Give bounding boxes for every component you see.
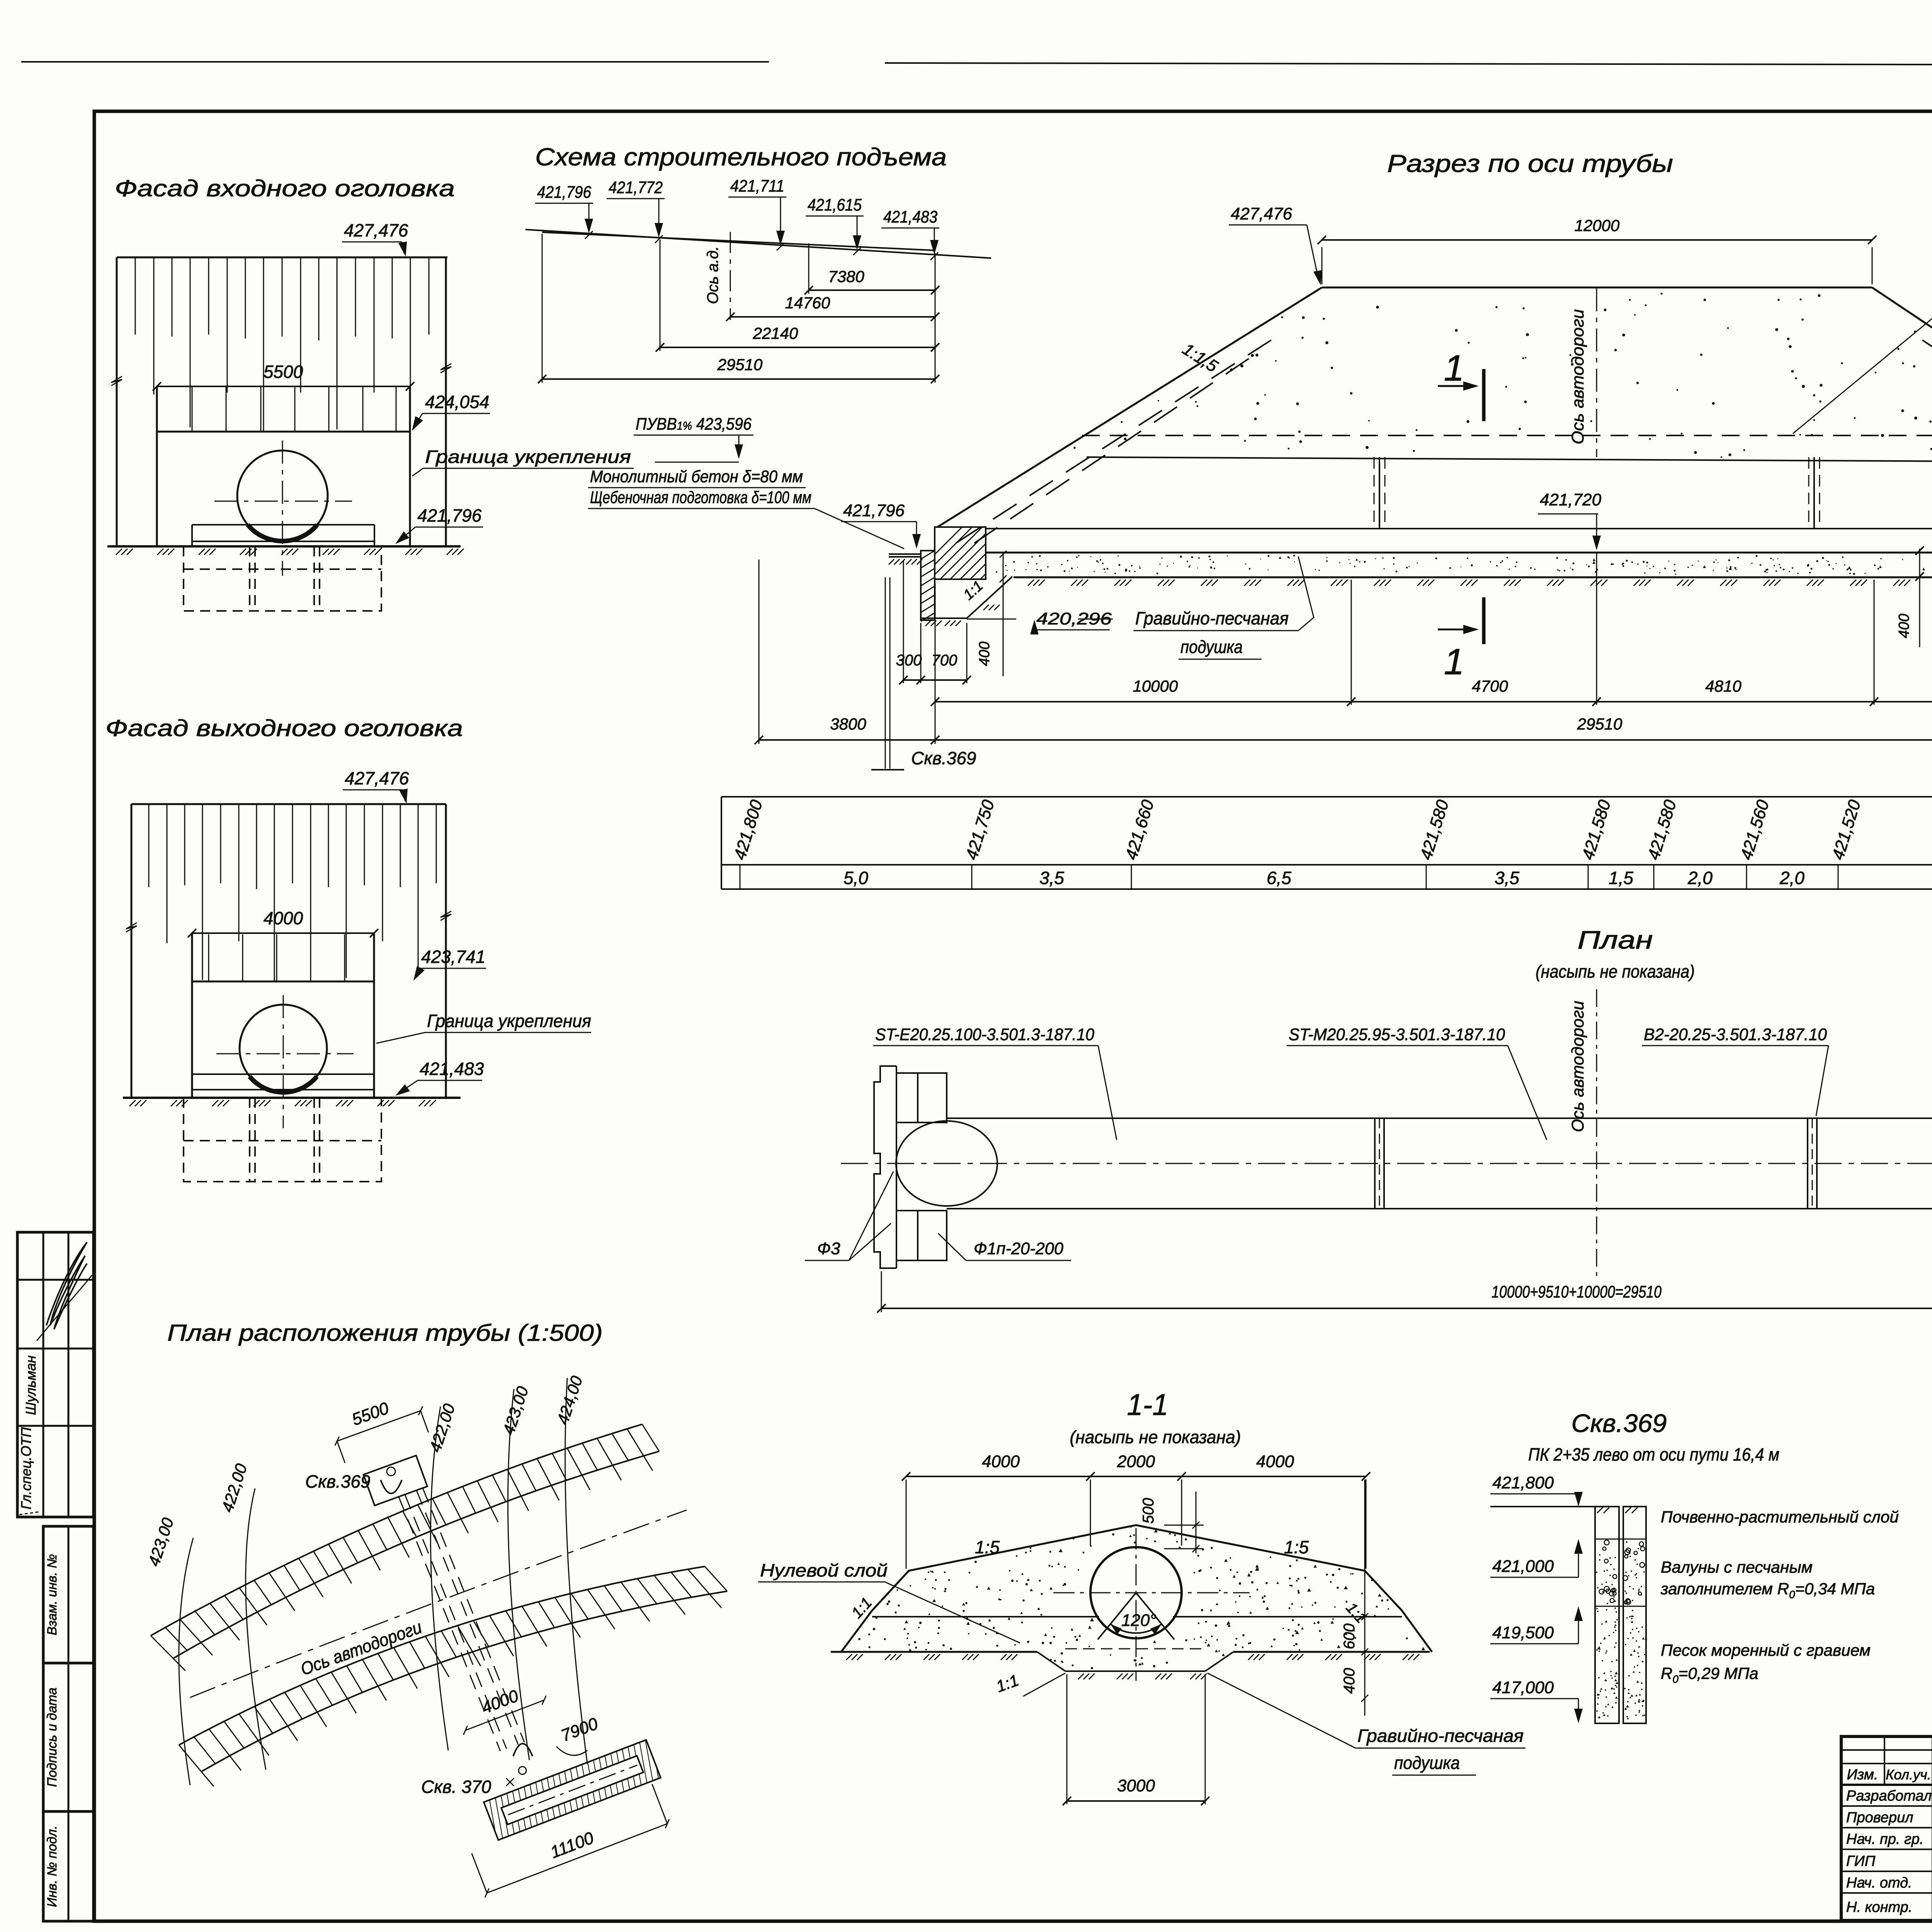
svg-text:Валуны с песчаным: Валуны с песчаным xyxy=(1661,1558,1813,1576)
svg-text:Разрез по оси трубы: Разрез по оси трубы xyxy=(1387,150,1673,177)
svg-text:1: 1 xyxy=(1444,348,1464,389)
svg-text:12000: 12000 xyxy=(1575,216,1620,235)
svg-text:421,711: 421,711 xyxy=(730,177,784,196)
svg-text:2,0: 2,0 xyxy=(1779,868,1804,888)
site plan shoulder hatch top band xyxy=(151,1636,185,1671)
svg-text:План: План xyxy=(1578,925,1653,954)
razrez embankment dots xyxy=(1073,293,1932,458)
camber profile lines xyxy=(526,230,991,258)
1-1 mid layer line xyxy=(872,1616,1099,1617)
svg-text:421,800: 421,800 xyxy=(1492,1473,1554,1492)
svg-text:Ф3: Ф3 xyxy=(817,1239,840,1258)
razrez fill boundary dashed line xyxy=(1082,435,1932,436)
razrez left slope 1:1.5 xyxy=(937,287,1322,527)
svg-text:Взам. инв. №: Взам. инв. № xyxy=(45,1554,60,1635)
svg-text:Разработал: Разработал xyxy=(1846,1788,1932,1804)
svg-text:420,296: 420,296 xyxy=(1036,609,1112,628)
skv369 boulders pattern xyxy=(1596,1540,1647,1719)
title block outer xyxy=(1841,1736,1932,1920)
1-1 pit xyxy=(1037,1652,1065,1671)
svg-text:10000: 10000 xyxy=(1133,677,1178,695)
razrez left headwall block (hatched) xyxy=(935,527,986,579)
razrez ground line with hatching xyxy=(1014,577,1932,578)
svg-text:Ф1п-20-200: Ф1п-20-200 xyxy=(974,1239,1064,1258)
svg-text:421,483: 421,483 xyxy=(420,1059,484,1079)
1-1 dim 3000 xyxy=(1067,1800,1205,1802)
site plan contour lines xyxy=(179,1538,193,1785)
svg-text:1: 1 xyxy=(1444,641,1464,682)
svg-text:4000: 4000 xyxy=(264,908,303,928)
1-1 pipe axis xyxy=(1136,1528,1137,1681)
svg-text:ГИП: ГИП xyxy=(1846,1853,1876,1869)
svg-text:4000: 4000 xyxy=(1256,1452,1294,1471)
svg-text:1:5: 1:5 xyxy=(975,1537,1000,1557)
razrez left headwall pit xyxy=(889,553,920,555)
svg-text:6,5: 6,5 xyxy=(1267,868,1291,888)
svg-text:5,0: 5,0 xyxy=(844,868,868,888)
camber dim 14760 xyxy=(730,316,935,318)
plan pipe joints xyxy=(1374,1118,1376,1209)
site plan 4000 dim xyxy=(454,1677,548,1735)
svg-text:Ось автодороги: Ось автодороги xyxy=(1568,309,1587,444)
facade inlet step line 424,054 level xyxy=(157,431,410,433)
svg-text:ST-M20.25.95-3.501.3-187.10: ST-M20.25.95-3.501.3-187.10 xyxy=(1289,1025,1505,1044)
plan road axis dashed xyxy=(1596,989,1597,1279)
svg-text:1-1: 1-1 xyxy=(1127,1388,1168,1422)
facade outlet wall outline xyxy=(131,803,446,805)
svg-text:Гравийно-песчаная: Гравийно-песчаная xyxy=(1357,1726,1524,1746)
svg-text:421,796: 421,796 xyxy=(537,183,591,202)
site plan outlet structure xyxy=(476,1729,689,1843)
plan pipe body xyxy=(947,1117,1932,1119)
scan edge line top xyxy=(21,61,769,63)
razrez road axis dashed xyxy=(1596,288,1597,457)
svg-text:427,476: 427,476 xyxy=(345,768,409,788)
site plan inlet structure xyxy=(364,1456,427,1505)
svg-text:500: 500 xyxy=(1140,1498,1157,1524)
razrez 400 cushion dim left xyxy=(1003,554,1004,676)
facade inlet ground line xyxy=(107,545,461,548)
svg-text:Инв. № подл.: Инв. № подл. xyxy=(45,1826,60,1907)
site plan skv369 symbol xyxy=(387,1467,395,1476)
svg-text:10000+9510+10000=29510: 10000+9510+10000=29510 xyxy=(1492,1282,1662,1301)
svg-text:421,483: 421,483 xyxy=(883,207,937,226)
svg-text:419,500: 419,500 xyxy=(1492,1623,1554,1642)
svg-text:14760: 14760 xyxy=(785,294,830,312)
facade inlet vertical hatch xyxy=(135,257,136,335)
plan pipe axis line xyxy=(841,1163,1932,1164)
facade inlet foundation slab xyxy=(192,524,374,526)
razrez right slope 1:1.5 xyxy=(1872,287,1932,549)
razrez cushion dotted band xyxy=(996,555,1932,575)
svg-text:Нач. отд.: Нач. отд. xyxy=(1846,1875,1912,1891)
profile table station ticks and rotated elevations xyxy=(740,865,741,889)
svg-text:4700: 4700 xyxy=(1472,677,1508,695)
svg-text:3,5: 3,5 xyxy=(1039,868,1064,888)
facade outlet pipe axis xyxy=(283,995,284,1128)
svg-text:ПУВВ1% 423,596: ПУВВ1% 423,596 xyxy=(636,415,752,434)
site plan 5500 dim xyxy=(326,1388,432,1464)
svg-text:Скв. 370: Скв. 370 xyxy=(421,1777,492,1797)
svg-text:421,772: 421,772 xyxy=(609,178,663,197)
facade outlet pipe opening circle xyxy=(240,1005,327,1092)
facade outlet underground dashed foundation xyxy=(184,1098,381,1182)
svg-text:3000: 3000 xyxy=(1117,1776,1155,1795)
profile table lines xyxy=(721,796,1932,798)
svg-text:Граница укрепления: Граница укрепления xyxy=(427,1011,591,1031)
svg-text:Кол.уч.: Кол.уч. xyxy=(1886,1767,1931,1782)
razrez 12000 dim xyxy=(1322,239,1872,241)
svg-text:400: 400 xyxy=(976,641,993,666)
site plan culvert crossing dashed xyxy=(399,1497,500,1751)
svg-text:(насыпь не показана): (насыпь не показана) xyxy=(1070,1427,1241,1447)
svg-text:421,796: 421,796 xyxy=(843,501,905,520)
1-1 dim 500 xyxy=(1164,1525,1204,1526)
svg-text:400: 400 xyxy=(1341,1668,1358,1694)
svg-text:(насыпь не показана): (насыпь не показана) xyxy=(1536,961,1695,981)
razrez 400 cushion dim right xyxy=(1919,549,1920,647)
facade inlet underground dashed foundation xyxy=(184,546,381,611)
facade outlet foundation slab xyxy=(192,1073,374,1075)
plan left headwall blocks xyxy=(896,1073,947,1122)
svg-text:Нулевой слой: Нулевой слой xyxy=(760,1560,888,1580)
1-1 pipe circle xyxy=(1090,1547,1182,1638)
svg-text:421,796: 421,796 xyxy=(417,505,482,526)
1-1 embankment profile xyxy=(841,1525,1432,1652)
razrez pipe joints xyxy=(1374,457,1375,529)
svg-text:Нач. пр. гр.: Нач. пр. гр. xyxy=(1846,1831,1923,1847)
svg-text:5500: 5500 xyxy=(264,362,303,382)
site plan shoulder hatch bottom band xyxy=(179,1745,214,1786)
svg-text:427,476: 427,476 xyxy=(344,220,408,240)
razrez section mark 1 upper xyxy=(1438,385,1475,387)
svg-text:1:5: 1:5 xyxy=(1284,1537,1309,1557)
svg-text:4000: 4000 xyxy=(982,1452,1020,1471)
razrez section mark 1 lower xyxy=(1438,629,1475,631)
plan total dim 29510 xyxy=(881,1308,1932,1309)
svg-text:Граница укрепления: Граница укрепления xyxy=(425,447,631,467)
skv369 column xyxy=(1595,1507,1619,1723)
camber dim 7380 xyxy=(809,289,935,291)
title block left table xyxy=(1841,1749,1932,1751)
svg-text:Схема строительного подъема: Схема строительного подъема xyxy=(535,143,947,171)
svg-text:Проверил: Проверил xyxy=(1846,1810,1913,1826)
svg-text:2000: 2000 xyxy=(1117,1452,1155,1471)
svg-text:Песок моренный с гравием: Песок моренный с гравием xyxy=(1661,1641,1871,1659)
camber road axis xyxy=(730,232,731,320)
razrez left pit bottom xyxy=(921,617,967,619)
svg-text:ПК 2+35 лево от оси пути 16,4: ПК 2+35 лево от оси пути 16,4 м xyxy=(1528,1444,1779,1464)
1-1 bedding angle 120 xyxy=(1098,1593,1136,1639)
facade outlet ground line xyxy=(123,1097,461,1099)
svg-text:Фасад входного оголовка: Фасад входного оголовка xyxy=(115,175,455,201)
svg-text:Ось автодороги: Ось автодороги xyxy=(1568,1001,1587,1132)
razrez borehole skv369 line xyxy=(885,577,886,769)
svg-text:ST-E20.25.100-3.501.3-187.10: ST-E20.25.100-3.501.3-187.10 xyxy=(875,1025,1094,1044)
razrez pipe crown line xyxy=(986,528,1932,529)
svg-text:Изм.: Изм. xyxy=(1847,1767,1878,1783)
svg-text:Гл.спец.ОТП: Гл.спец.ОТП xyxy=(18,1427,34,1510)
svg-text:Ось а.д.: Ось а.д. xyxy=(704,246,721,304)
1-1 top dims 4000 2000 4000 xyxy=(906,1476,1366,1477)
facade outlet 4000 dim xyxy=(192,932,374,934)
facade outlet hatch below dim xyxy=(208,934,209,981)
1-1 dims 600 400 right xyxy=(1364,1480,1366,1716)
svg-text:Скв.369: Скв.369 xyxy=(911,748,976,768)
razrez left headwall wall (hatched) xyxy=(921,551,935,620)
svg-text:600: 600 xyxy=(1341,1624,1358,1650)
svg-text:3800: 3800 xyxy=(830,715,866,733)
facade inlet pipe opening circle xyxy=(237,451,328,541)
facade inlet wall outline xyxy=(117,257,447,259)
razrez strengthening top line xyxy=(1087,457,1932,462)
plan left oval link xyxy=(896,1121,997,1206)
plan left portal slab F3 xyxy=(874,1066,896,1268)
camber dim 22140 xyxy=(660,347,935,348)
svg-text:Шульман: Шульман xyxy=(23,1355,39,1415)
left stamp boxes xyxy=(17,1232,94,1517)
site plan road axis xyxy=(190,1510,687,1697)
svg-text:Н. контр.: Н. контр. xyxy=(1846,1899,1912,1915)
svg-text:Почвенно-растительный слой: Почвенно-растительный слой xyxy=(1661,1508,1899,1526)
svg-text:421,615: 421,615 xyxy=(808,196,862,214)
svg-text:417,000: 417,000 xyxy=(1492,1678,1554,1697)
svg-text:Скв.369: Скв.369 xyxy=(305,1471,370,1492)
razrez lower dim row 3800 29510 xyxy=(759,739,1932,741)
svg-text:424,054: 424,054 xyxy=(425,392,489,412)
skv369 ground line xyxy=(1490,1506,1595,1507)
site plan road edges xyxy=(151,1424,642,1636)
razrez lower dim row 10000 4700 4810 10000 xyxy=(935,701,1932,702)
svg-text:2,0: 2,0 xyxy=(1687,868,1713,888)
stamp box vzam inv xyxy=(43,1526,94,1663)
facade outlet vertical hatch xyxy=(148,804,150,887)
svg-text:подушка: подушка xyxy=(1180,637,1243,657)
svg-text:заполнителем R0=0,34 МПа: заполнителем R0=0,34 МПа xyxy=(1660,1580,1875,1600)
svg-text:План расположения трубы (1:500: План расположения трубы (1:500) xyxy=(167,1320,603,1346)
svg-text:120°: 120° xyxy=(1121,1611,1156,1630)
svg-text:1,5: 1,5 xyxy=(1609,868,1633,888)
stamp signature squiggle xyxy=(46,1242,87,1329)
svg-text:427,476: 427,476 xyxy=(1231,204,1293,223)
svg-text:3,5: 3,5 xyxy=(1495,868,1519,888)
svg-text:Фасад выходного оголовка: Фасад выходного оголовка xyxy=(105,715,463,741)
razrez cushion top line xyxy=(986,552,1932,554)
svg-text:подушка: подушка xyxy=(1394,1753,1460,1773)
facade inlet 5500 dim xyxy=(157,386,410,387)
razrez dim 300 700 left xyxy=(903,679,967,681)
skv369 top soil hatch xyxy=(1597,1507,1603,1513)
1-1 embankment dots xyxy=(858,1526,1425,1669)
svg-text:Гравийно-песчаная: Гравийно-песчаная xyxy=(1135,608,1289,628)
svg-text:400: 400 xyxy=(1896,614,1912,638)
svg-text:423,741: 423,741 xyxy=(421,947,485,967)
svg-text:7380: 7380 xyxy=(828,267,864,286)
1-1 ground line xyxy=(831,1651,1037,1653)
camber dim 29510 xyxy=(542,378,935,380)
stamp box podpis i data xyxy=(43,1663,94,1811)
svg-text:Подпись и дата: Подпись и дата xyxy=(45,1687,60,1787)
svg-text:4810: 4810 xyxy=(1705,677,1742,695)
facade inlet pipe axis xyxy=(282,440,283,576)
facade inlet hatch below dim xyxy=(192,387,193,431)
razrez road top xyxy=(1322,287,1872,289)
svg-text:300: 300 xyxy=(896,652,922,669)
facade outlet step line 423,741 level xyxy=(192,981,374,983)
site plan skv370 symbol xyxy=(519,1767,526,1774)
svg-text:421,720: 421,720 xyxy=(1540,490,1602,509)
svg-text:29510: 29510 xyxy=(1577,715,1622,733)
svg-text:421,000: 421,000 xyxy=(1492,1557,1554,1576)
stamp box inv n podl xyxy=(43,1811,94,1921)
svg-text:Монолитный бетон δ=80 мм: Монолитный бетон δ=80 мм xyxy=(590,467,803,486)
razrez label 420,296 xyxy=(967,619,1016,620)
svg-text:22140: 22140 xyxy=(753,324,798,342)
svg-text:29510: 29510 xyxy=(717,355,763,374)
svg-text:В2-20.25-3.501.3-187.10: В2-20.25-3.501.3-187.10 xyxy=(1644,1025,1827,1044)
svg-text:Щебеночная подготовка δ=100 мм: Щебеночная подготовка δ=100 мм xyxy=(590,488,811,507)
site plan 11100 dim xyxy=(468,1783,672,1898)
svg-text:Скв.369: Скв.369 xyxy=(1571,1409,1667,1437)
